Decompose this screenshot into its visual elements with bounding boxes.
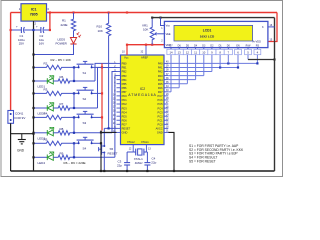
svg-text:R4: R4 [44,111,48,115]
svg-text:22p: 22p [151,161,156,165]
svg-text:R6: R6 [60,75,64,79]
svg-text:10: 10 [122,51,125,54]
wire PA5 to LCD D5 [168,55,187,84]
svg-text:AREF: AREF [141,56,149,60]
resistor R8 [58,127,113,135]
svg-text:25: 25 [166,110,169,112]
svg-text:R2 – R5 = 10K: R2 – R5 = 10K [51,58,72,62]
svg-text:7: 7 [114,86,116,88]
node S2 junction [73,92,75,108]
wire RESET to MCU [104,127,116,146]
svg-text:18: 18 [113,111,116,113]
svg-text:22: 22 [166,123,169,125]
svg-text:AVCC: AVCC [156,127,163,131]
node S3 junction [73,116,75,133]
svg-text:R10: R10 [97,25,103,29]
svg-text:PB3: PB3 [122,74,127,78]
svg-text:GND: GND [157,131,163,135]
svg-text:27: 27 [166,102,169,104]
svg-text:RESET: RESET [108,152,118,156]
svg-text:12: 12 [186,51,190,55]
svg-text:PD5: PD5 [122,114,128,118]
svg-text:R2: R2 [44,61,48,65]
LED2 [32,103,57,116]
ground symbol GND [17,134,26,153]
svg-text:FOR 9V: FOR 9V [15,116,26,120]
svg-text:PB2: PB2 [122,70,127,74]
LED1 [32,76,57,89]
svg-text:PB4: PB4 [122,78,127,82]
svg-text:4MHz: 4MHz [135,161,143,165]
svg-text:R6 – R9 = 220E: R6 – R9 = 220E [64,161,86,165]
svg-text:23: 23 [166,118,169,120]
svg-text:R5: R5 [44,137,48,141]
wire PA6 to LCD D6 [168,55,179,88]
svg-text:PA5: PA5 [158,82,163,86]
label R6-R9 [64,161,86,165]
wire LED5 to ground bus [32,44,73,56]
svg-text:ATMEGA16A: ATMEGA16A [128,93,156,97]
resistor R1 [61,13,76,38]
svg-text:PD3: PD3 [122,106,128,110]
svg-text:16V: 16V [39,42,44,46]
wire LCD Vss ground [161,18,165,26]
svg-text:PA2: PA2 [158,70,163,74]
svg-text:PD4: PD4 [122,110,128,114]
svg-text:LCD1: LCD1 [203,29,212,33]
svg-text:A+VDD: A+VDD [253,41,262,44]
svg-text:10: 10 [202,51,206,55]
microcontroller IC2 ATMEGA16A [113,45,169,152]
node junction rail Vcc drop [126,11,128,13]
wire XTAL2 net [127,151,133,153]
wire +9V from CON1 to IC1 [11,13,21,111]
svg-text:2: 2 [161,40,163,43]
svg-text:PA0: PA0 [158,62,163,66]
node S1 junction [73,66,75,81]
wire MCU right GND down [168,132,175,172]
svg-text:16: 16 [270,24,273,27]
svg-text:28: 28 [166,98,169,100]
resistor R10 [97,13,111,129]
svg-text:16: 16 [113,103,116,105]
svg-text:PB1: PB1 [122,66,127,70]
wire IC1 pin2 ground [33,21,35,171]
wire +5V rail [47,12,278,14]
wire PA4 to LCD D4 [168,55,195,80]
svg-text:15: 15 [113,99,116,101]
svg-text:GND: GND [17,149,25,153]
svg-text:PB6: PB6 [122,86,127,90]
LCD1 16x2 display [164,21,268,47]
node junction rail R1 [72,11,74,13]
svg-text:32: 32 [141,51,144,54]
svg-text:S3: S3 [83,121,87,125]
svg-text:S1: S1 [83,71,87,75]
svg-text:22p: 22p [117,164,122,168]
svg-text:R9: R9 [60,151,64,155]
capacitor C2 [34,11,52,45]
switch S4 [77,137,103,150]
svg-text:+: + [36,25,38,29]
LED4 [32,152,57,165]
svg-text:30: 30 [166,127,169,129]
svg-text:RS: RS [256,44,260,47]
svg-text:POWER: POWER [56,41,68,45]
svg-text:PA6: PA6 [158,86,163,90]
svg-text:24: 24 [166,114,169,116]
svg-text:220E: 220E [61,23,68,27]
svg-text:LED4: LED4 [38,161,46,165]
svg-text:17: 17 [113,107,116,109]
LCD pin numbers [167,48,261,55]
wire LED1 node to MCU PB0 [95,63,117,81]
svg-text:19: 19 [113,115,116,117]
svg-text:PC5: PC5 [158,102,164,106]
wire MCU gnd pin down [100,131,117,173]
wire LED2 node to MCU PB1 [98,67,117,108]
node S4 junction [73,142,75,157]
svg-text:21: 21 [113,123,116,125]
LED5 power [56,32,82,45]
svg-text:PC0: PC0 [158,123,164,127]
svg-text:13: 13 [148,148,151,151]
svg-text:14: 14 [113,94,116,96]
svg-text:25V: 25V [19,42,24,46]
svg-text:PD0: PD0 [122,94,128,98]
wire AVCC stub [167,127,169,129]
wire PA2 to LCD D2 [168,55,212,72]
svg-text:+: + [16,25,18,29]
svg-text:PB0: PB0 [122,62,127,66]
legend switch functions [189,144,244,164]
wire PA1 to LCD D1 [168,55,239,69]
wire R/W to ground [248,55,276,61]
node junction rail R10 [108,11,110,13]
wire ground bottom rail [11,170,275,172]
resistor R6 [58,75,96,83]
wire ground link [11,133,35,135]
resistor R7 [58,102,98,110]
resistor R4 [32,111,78,119]
svg-text:Vcc: Vcc [124,56,129,60]
resistor R3 [32,87,78,95]
svg-text:PD7: PD7 [122,123,128,127]
border frame [1,1,283,177]
svg-text:7805: 7805 [30,13,38,17]
svg-text:20: 20 [113,119,116,121]
svg-text:RESET: RESET [122,127,131,131]
svg-text:XTAL1: XTAL1 [141,140,149,144]
svg-text:GND: GND [122,131,128,135]
capacitor C3 [117,152,130,172]
svg-text:PA7: PA7 [158,90,163,94]
wire PA0 to LCD D0 [168,55,258,65]
svg-text:R7: R7 [60,102,64,106]
svg-text:PD2: PD2 [122,102,128,106]
svg-text:S5 = FOR RESET: S5 = FOR RESET [189,160,216,164]
resistor R2 [32,61,78,69]
svg-text:PA4: PA4 [158,78,163,82]
wire LED4 node to MCU PB3 [115,76,117,158]
svg-text:VEE: VEE [166,33,171,36]
LED3 [32,127,57,140]
svg-text:1: 1 [161,27,163,30]
svg-text:R3: R3 [44,87,48,91]
svg-text:Vss: Vss [166,25,171,28]
svg-text:S5: S5 [110,147,114,151]
svg-text:PC1: PC1 [158,118,164,122]
svg-text:13: 13 [178,51,182,55]
label R2-R5 [51,58,72,62]
svg-text:S4: S4 [83,147,87,151]
wire PA3 to LCD D3 [168,55,204,76]
wire rail drop to LCD pin15 [268,13,277,42]
svg-text:R/W: R/W [246,44,251,47]
regulator IC1 7805 [19,4,50,26]
svg-text:PD1: PD1 [122,98,128,102]
preset VR1 [142,17,164,45]
switch S2 [77,87,104,100]
svg-text:S2: S2 [83,97,87,101]
wire ground top [152,17,274,172]
resistor R5 [32,137,78,145]
connector CON1 [8,111,25,124]
svg-text:10K: 10K [143,28,148,32]
crystal XTAL1 [133,149,146,165]
svg-text:R8: R8 [60,127,64,131]
wire LCD backlight K [268,26,275,28]
label pin15 [270,24,273,42]
svg-text:PC6: PC6 [158,98,164,102]
wire CON1 negative [10,123,12,171]
svg-text:PA1: PA1 [158,66,163,70]
capacitor C4 [144,152,156,172]
svg-text:29: 29 [166,94,169,96]
wire XTAL1 net [146,151,147,153]
svg-text:26: 26 [166,106,169,108]
svg-text:16X2 LCD: 16X2 LCD [200,34,215,38]
svg-text:EN: EN [236,44,240,47]
wire +5V switch column [101,64,103,131]
svg-text:PC3: PC3 [158,110,164,114]
wire +5V to LCD VDD [126,44,164,46]
svg-text:14: 14 [169,51,173,55]
capacitor C1 [10,25,35,46]
wire LED3 node to MCU PB2 [112,72,117,133]
svg-text:PB5: PB5 [122,82,127,86]
svg-text:3: 3 [47,7,49,11]
svg-text:8: 8 [114,90,116,92]
switch S5 reset [99,144,118,172]
switch S1 [77,61,104,74]
svg-text:5: 5 [114,78,116,80]
switch S3 [77,111,104,124]
svg-text:10K: 10K [98,29,103,33]
svg-text:IC2: IC2 [140,87,145,91]
svg-text:12: 12 [129,148,132,151]
svg-text:PA3: PA3 [158,74,163,78]
svg-text:PC2: PC2 [158,114,164,118]
svg-text:IC1: IC1 [31,8,37,12]
wire PA7 to LCD D7 [168,55,171,92]
svg-text:PC7: PC7 [158,94,164,98]
svg-text:PC4: PC4 [158,106,164,110]
svg-text:11: 11 [194,51,197,55]
svg-text:PD6: PD6 [122,118,128,122]
svg-text:XTAL2: XTAL2 [127,140,135,144]
resistor R9 [58,151,115,159]
svg-text:PB7: PB7 [122,90,127,94]
svg-text:6: 6 [114,82,116,84]
